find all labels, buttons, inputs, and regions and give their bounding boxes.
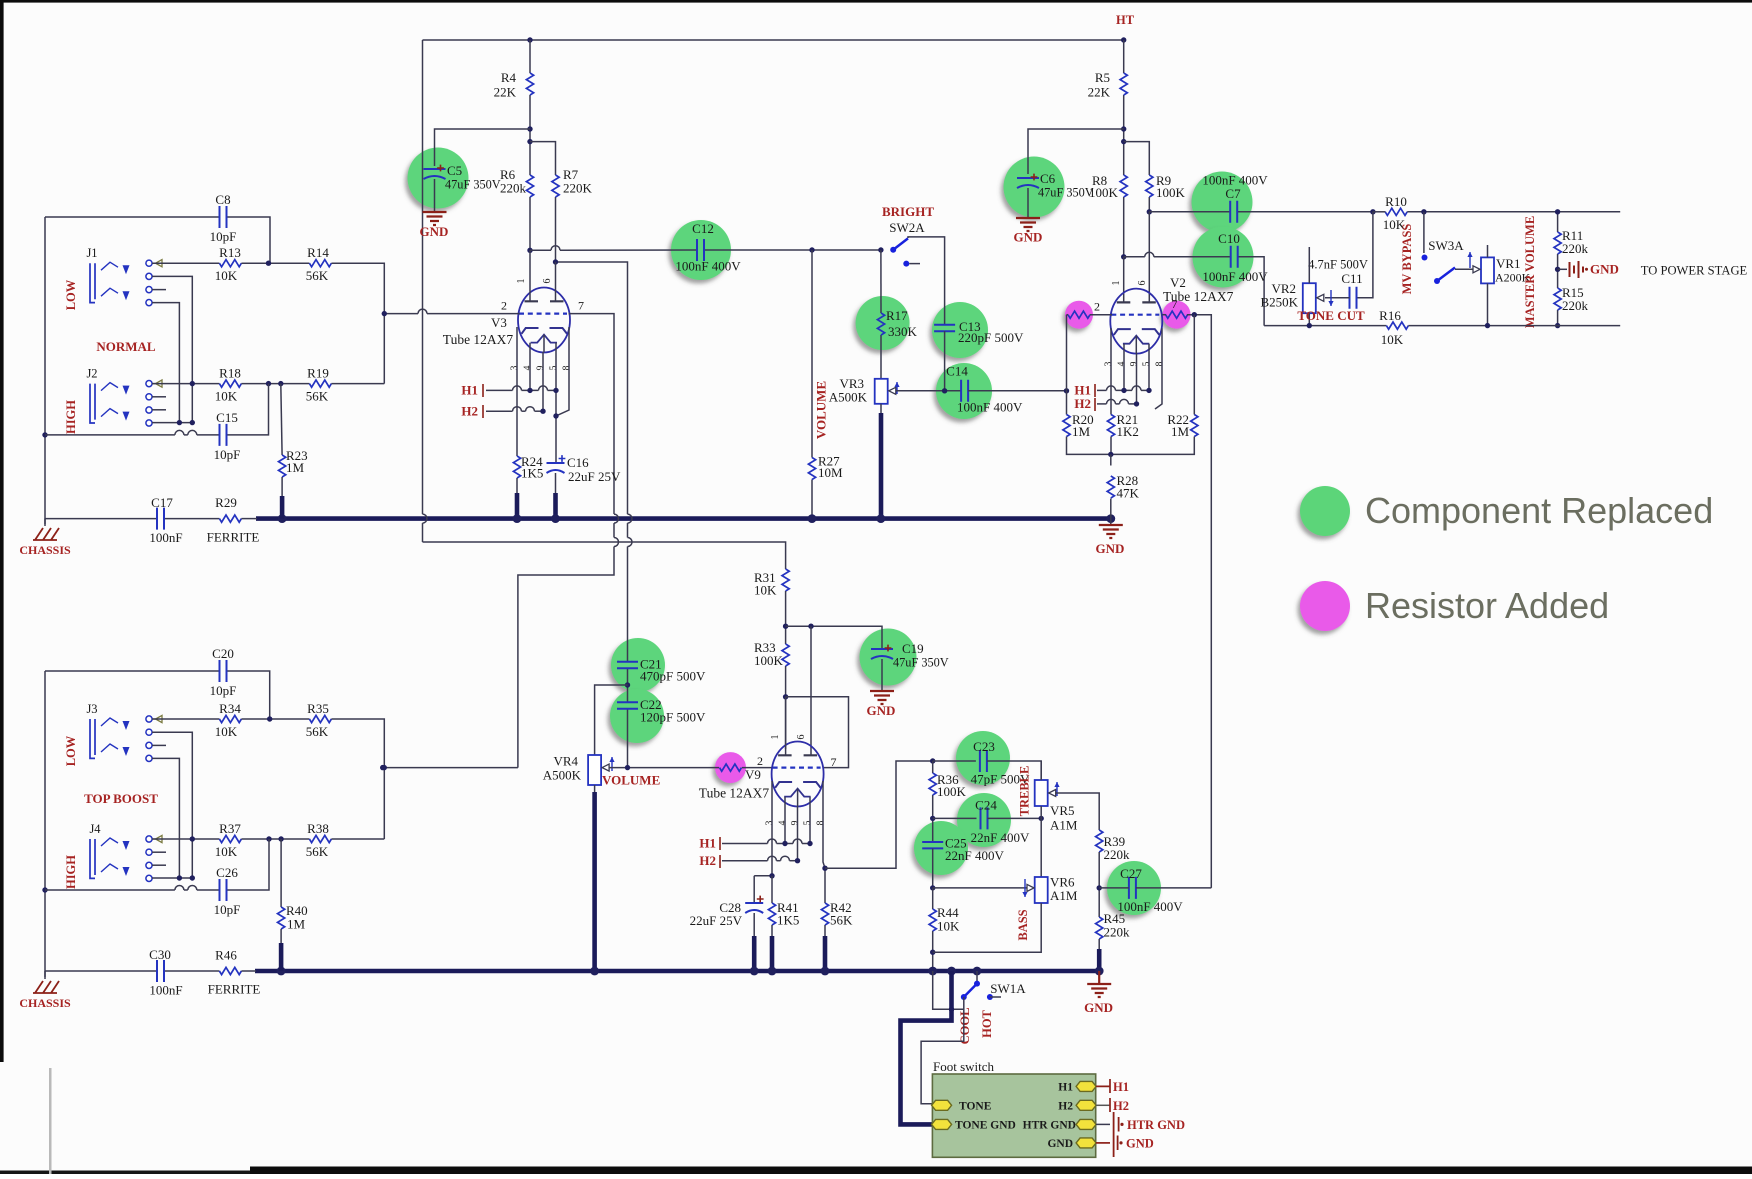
svg-text:3: 3 bbox=[765, 820, 775, 825]
resistor R18 10K bbox=[219, 380, 241, 387]
svg-text:R16: R16 bbox=[1379, 308, 1401, 323]
resistor R31 10K bbox=[782, 569, 789, 591]
svg-text:220pF 500V: 220pF 500V bbox=[958, 330, 1024, 345]
wire R23 branch bbox=[281, 384, 282, 455]
svg-text:R35: R35 bbox=[307, 701, 329, 716]
wire SW3A to VR1 wiper bbox=[1455, 268, 1473, 270]
junction C27 / R39 / R45 bbox=[1097, 885, 1102, 890]
svg-text:HTR GND: HTR GND bbox=[1023, 1119, 1076, 1131]
wire V2 pin6 lead bbox=[1148, 212, 1150, 303]
wire R29 to bus start bbox=[241, 518, 257, 520]
svg-text:6: 6 bbox=[542, 279, 553, 284]
svg-text:10pF: 10pF bbox=[214, 447, 241, 462]
resistor R8 100K bbox=[1120, 175, 1127, 197]
svg-text:120pF 500V: 120pF 500V bbox=[640, 710, 706, 725]
wire C11 branch bbox=[1357, 212, 1373, 298]
svg-text:10K: 10K bbox=[754, 583, 777, 598]
junction mix node to V3 grid bbox=[382, 311, 387, 316]
svg-text:SW2A: SW2A bbox=[889, 220, 925, 235]
wire R41 to bus bbox=[771, 925, 773, 937]
svg-text:1M: 1M bbox=[1171, 424, 1190, 439]
junction R22 top bbox=[1192, 312, 1197, 317]
svg-text:10K: 10K bbox=[215, 389, 238, 404]
wire jack link ring J1 to R18 node bbox=[152, 276, 192, 422]
resistor R10 10K bbox=[1385, 208, 1407, 215]
wire R18 to R19 bbox=[241, 383, 309, 385]
svg-text:1K5: 1K5 bbox=[777, 913, 799, 928]
junction R7 tap bbox=[527, 139, 532, 144]
wire cathode common row bbox=[1067, 437, 1195, 455]
wire J1 tip to R13 bbox=[152, 262, 219, 264]
wire R22 top lead bbox=[1193, 315, 1195, 415]
wire VR3 bottom to bus bbox=[880, 404, 882, 414]
svg-text:C23: C23 bbox=[973, 739, 995, 754]
ground bus upper bbox=[256, 516, 1111, 521]
wire J3 contact stub bbox=[152, 744, 166, 746]
wire C27 left lead bbox=[1099, 887, 1129, 889]
svg-text:R34: R34 bbox=[219, 701, 241, 716]
wire R10 leads bbox=[1373, 211, 1386, 213]
wire VR2 wiper to C11 bbox=[1325, 297, 1350, 299]
svg-text:5: 5 bbox=[803, 820, 813, 825]
heater H2 wire V9 bbox=[722, 860, 768, 862]
svg-text:1M: 1M bbox=[1072, 424, 1091, 439]
junction V9 pin6 tap bbox=[808, 624, 813, 629]
svg-text:H1: H1 bbox=[1113, 1080, 1129, 1094]
chassis ground lower bbox=[44, 971, 46, 979]
svg-text:TONE: TONE bbox=[959, 1100, 992, 1112]
svg-text:C30: C30 bbox=[149, 947, 171, 962]
highlight circle R17 replaced bbox=[856, 296, 910, 350]
potentiometer VR4 A500K volume bbox=[588, 755, 601, 785]
resistor R41 1K5 bbox=[768, 903, 775, 925]
svg-text:A1M: A1M bbox=[1050, 888, 1078, 903]
resistor added at V2 pin 7 bbox=[1166, 311, 1188, 318]
svg-text:22uF 25V: 22uF 25V bbox=[568, 469, 621, 484]
ground below C6 bbox=[1016, 218, 1040, 231]
pad TONE GND bbox=[932, 1119, 952, 1129]
resistor R45 220k bbox=[1096, 917, 1103, 939]
svg-text:22K: 22K bbox=[494, 85, 517, 100]
resistor R17 330K bbox=[877, 313, 884, 335]
svg-text:100nF: 100nF bbox=[149, 983, 182, 998]
wire J3 tip to R34 bbox=[152, 718, 219, 720]
wire HT rail bbox=[423, 39, 1124, 41]
wire to R9 top bbox=[1124, 142, 1150, 175]
junction C28 / R41 / V9 pin3 bbox=[769, 873, 774, 878]
wire C23 to VR5 top bbox=[987, 761, 1041, 779]
foot switch block bbox=[932, 1074, 1095, 1157]
highlight circle C10 replaced bbox=[1193, 227, 1254, 288]
svg-text:FERRITE: FERRITE bbox=[207, 530, 260, 545]
svg-text:1K5: 1K5 bbox=[521, 466, 543, 481]
resistor R34 10K bbox=[219, 715, 241, 722]
svg-text:SW3A: SW3A bbox=[1428, 238, 1464, 253]
svg-text:R38: R38 bbox=[307, 821, 329, 836]
junction R9 bottom / C7 bbox=[1147, 209, 1152, 214]
svg-text:TONE GND: TONE GND bbox=[955, 1119, 1016, 1131]
capacitor C24 22nF 400V bbox=[981, 807, 988, 829]
highlight circle C14 replaced bbox=[936, 363, 992, 419]
wire to C5 bbox=[435, 129, 531, 166]
svg-text:HIGH: HIGH bbox=[64, 400, 78, 434]
capacitor C21 470pF 500V bbox=[617, 662, 638, 668]
wire to R7 top bbox=[530, 142, 556, 175]
wire J4 sleeve row bbox=[152, 877, 192, 879]
svg-text:1M: 1M bbox=[286, 460, 305, 475]
svg-text:H2: H2 bbox=[1074, 396, 1091, 411]
svg-text:H2: H2 bbox=[461, 404, 478, 419]
tube V2 12AX7 envelope bbox=[1110, 289, 1162, 354]
wire tone input to C23 bbox=[933, 760, 976, 762]
svg-text:100nF 400V: 100nF 400V bbox=[1117, 899, 1183, 914]
wire to VR4 top bbox=[595, 685, 628, 755]
pad TONE bbox=[932, 1100, 952, 1110]
svg-text:H2: H2 bbox=[699, 853, 716, 868]
svg-text:CHASSIS: CHASSIS bbox=[19, 996, 71, 1010]
resistor R7 220K bbox=[552, 175, 559, 197]
resistor R29 ferrite bead bbox=[219, 515, 241, 522]
wire C14 to V2 grid bbox=[968, 390, 1066, 392]
capacitor C10 100nF 400V bbox=[1231, 246, 1238, 268]
ground bus lower bbox=[255, 969, 1099, 974]
capacitor C30 100nF bbox=[157, 960, 164, 982]
wire V3 pin 6 row bbox=[556, 262, 628, 514]
highlight circle C19 replaced bbox=[860, 629, 917, 686]
resistor R28 47K bbox=[1107, 476, 1114, 498]
potentiometer VR6 A1M bass bbox=[1035, 877, 1048, 903]
wire tone gnd thick to foot switch bbox=[901, 971, 952, 1124]
svg-text:Tube 12AX7: Tube 12AX7 bbox=[699, 786, 770, 801]
svg-text:GND: GND bbox=[1047, 1138, 1073, 1150]
svg-text:7: 7 bbox=[831, 755, 837, 769]
junction C8 / R13 / R14 bbox=[266, 261, 271, 266]
capacitor C25 22nF 400V bbox=[922, 842, 943, 848]
svg-text:C15: C15 bbox=[216, 410, 238, 425]
svg-text:Component Replaced: Component Replaced bbox=[1365, 490, 1713, 531]
wire C10 row bbox=[1124, 256, 1145, 258]
svg-text:R37: R37 bbox=[219, 821, 241, 836]
svg-text:470pF 500V: 470pF 500V bbox=[640, 669, 706, 684]
junction C21 C22 / VR4 top bbox=[625, 682, 630, 687]
wire HTR GND external bbox=[1096, 1123, 1110, 1125]
svg-text:C14: C14 bbox=[946, 364, 968, 379]
svg-text:H1: H1 bbox=[461, 383, 478, 398]
wire left chassis vertical lower bbox=[44, 671, 46, 977]
svg-text:Resistor Added: Resistor Added bbox=[1365, 585, 1609, 626]
wire to C6 bbox=[1028, 129, 1124, 174]
jack J3 contacts bbox=[146, 715, 162, 761]
wire R35 to mix node lower bbox=[331, 719, 384, 839]
wire R42 to bus bbox=[824, 925, 826, 937]
svg-text:SW1A: SW1A bbox=[990, 981, 1026, 996]
wire R33 bottom to plate route bbox=[785, 666, 787, 749]
input jack J1 body bbox=[90, 262, 118, 302]
wire R44 branch bbox=[932, 888, 934, 909]
junction R4 bottom / C5 bbox=[527, 126, 532, 131]
svg-text:C6: C6 bbox=[1040, 171, 1056, 186]
svg-text:100nF 400V: 100nF 400V bbox=[1202, 269, 1268, 284]
wire VR5 wiper to R39 bbox=[1055, 793, 1099, 830]
capacitor C26 10pF bbox=[220, 879, 227, 901]
wire J4 tip to R37 bbox=[152, 838, 219, 840]
wire R42 branch bbox=[824, 868, 826, 903]
wire bottom tone row bbox=[1264, 325, 1386, 327]
potentiometer VR1 A200K master volume bbox=[1481, 257, 1494, 283]
jack J4 contacts bbox=[146, 835, 162, 881]
svg-text:C24: C24 bbox=[975, 798, 997, 813]
svg-text:R13: R13 bbox=[219, 245, 241, 260]
wire plate route to pin7 bbox=[786, 697, 849, 768]
svg-text:C16: C16 bbox=[567, 455, 589, 470]
highlight circle C5 replaced bbox=[408, 148, 469, 209]
wire C19 to ground bbox=[881, 659, 883, 691]
highlight circle C7 replaced bbox=[1192, 172, 1253, 233]
resistor R46 ferrite bead bbox=[219, 967, 241, 974]
junction C22 bottom / wiper row bbox=[625, 765, 630, 770]
svg-text:V2: V2 bbox=[1170, 275, 1186, 290]
highlight circle grid resistor added V2 pin2 bbox=[1065, 301, 1093, 329]
svg-text:R18: R18 bbox=[219, 366, 241, 381]
junction R42 top / signal out bbox=[822, 866, 827, 871]
resistor added at V9 pin 2 bbox=[720, 764, 742, 771]
svg-text:330K: 330K bbox=[888, 324, 918, 339]
svg-text:220K: 220K bbox=[563, 181, 593, 196]
svg-text:GND: GND bbox=[867, 703, 896, 718]
wire VR1 bottom bbox=[1487, 283, 1489, 325]
svg-text:FERRITE: FERRITE bbox=[208, 982, 261, 997]
wire link to x518 vertical bbox=[383, 767, 518, 769]
junction C20 / R34 / R35 bbox=[267, 716, 272, 721]
highlight circle C21 replaced bbox=[611, 638, 665, 692]
svg-text:R46: R46 bbox=[215, 948, 237, 963]
svg-text:HTR GND: HTR GND bbox=[1127, 1118, 1185, 1132]
junction HT / R5 bbox=[1121, 37, 1126, 42]
svg-text:GND: GND bbox=[1084, 1000, 1113, 1015]
junction R44 bottom / VR6 bottom bbox=[930, 950, 935, 955]
ground at lower bus end bbox=[1098, 971, 1100, 984]
svg-text:10K: 10K bbox=[215, 268, 238, 283]
svg-text:22uF 25V: 22uF 25V bbox=[690, 913, 743, 928]
svg-text:LOW: LOW bbox=[64, 279, 78, 310]
highlight circle C6 replaced bbox=[1004, 157, 1065, 218]
capacitor C20 10pF bbox=[220, 660, 227, 682]
svg-text:C27: C27 bbox=[1120, 866, 1142, 881]
svg-text:BASS: BASS bbox=[1016, 909, 1030, 940]
junction jack rail / R37 row bbox=[190, 836, 195, 841]
resistor R15 220k bbox=[1554, 288, 1561, 310]
capacitor C28 22uF 25V bbox=[745, 902, 763, 904]
junction R23 top bbox=[278, 381, 283, 386]
wire V3 pin7 bbox=[569, 314, 615, 514]
svg-text:V3: V3 bbox=[491, 315, 507, 330]
wire VR2 top stub bbox=[1308, 247, 1310, 283]
junction R10 / C11 bbox=[1370, 209, 1375, 214]
svg-text:100K: 100K bbox=[1156, 185, 1186, 200]
svg-text:GND: GND bbox=[1096, 541, 1125, 556]
svg-text:A1M: A1M bbox=[1050, 818, 1078, 833]
wire C5 to ground bbox=[434, 179, 436, 212]
junction R27 tap bbox=[809, 247, 814, 252]
junction SW3A top bbox=[1421, 209, 1426, 214]
wire stage link row y542 bbox=[423, 542, 786, 569]
junction VR5 bottom / VR6 top bbox=[1039, 816, 1044, 821]
svg-text:100K: 100K bbox=[754, 653, 784, 668]
resistor R23 1M bbox=[279, 455, 286, 477]
resistor R40 1M bbox=[278, 907, 285, 929]
wire R36 branch bbox=[932, 761, 934, 773]
resistor R5 22K bbox=[1120, 73, 1127, 95]
svg-text:8: 8 bbox=[816, 820, 826, 825]
svg-text:7: 7 bbox=[578, 299, 584, 313]
svg-text:VR4: VR4 bbox=[553, 754, 578, 769]
wire jack link sleeve J1 to J2 bbox=[152, 303, 179, 423]
svg-text:10pF: 10pF bbox=[210, 229, 237, 244]
pad H2 bbox=[1076, 1100, 1096, 1110]
chassis ground upper bbox=[44, 519, 46, 526]
wire chassis row upper bbox=[45, 518, 157, 520]
highlight circle C22 replaced bbox=[610, 689, 664, 743]
wire VR6 wiper row bbox=[933, 887, 1034, 889]
input jack J2 body bbox=[90, 383, 118, 423]
svg-text:2: 2 bbox=[757, 754, 763, 768]
wire C21 C22 chain bbox=[627, 261, 629, 263]
wire V3 pin6 lead bbox=[555, 262, 557, 302]
svg-text:VR5: VR5 bbox=[1050, 803, 1075, 818]
wire R11 R15 divider bbox=[1557, 212, 1559, 232]
junction jack ring rail / R18 row bbox=[190, 381, 195, 386]
wire R20 top lead bbox=[1066, 391, 1068, 415]
capacitor C22 120pF 500V bbox=[617, 702, 638, 708]
svg-text:A500K: A500K bbox=[829, 390, 868, 405]
highlight circle C24 replaced bbox=[957, 793, 1011, 847]
svg-text:56K: 56K bbox=[306, 389, 329, 404]
input jack J4 body bbox=[90, 838, 118, 878]
wire R38 to mix node lower bbox=[331, 838, 384, 840]
svg-text:100nF: 100nF bbox=[149, 530, 182, 545]
wire J4 contact stub bbox=[152, 864, 166, 866]
capacitor C13 220pF 500V bbox=[934, 325, 955, 331]
svg-text:47uF 350V: 47uF 350V bbox=[1038, 186, 1094, 200]
ground stub master volume bbox=[1558, 268, 1567, 270]
svg-text:9: 9 bbox=[1130, 361, 1140, 366]
wire R19 to mix node bbox=[331, 383, 384, 385]
svg-text:5: 5 bbox=[1142, 361, 1152, 366]
svg-text:LOW: LOW bbox=[64, 735, 78, 766]
wire VR5 to VR6 bbox=[1040, 806, 1042, 880]
resistor R24 1K5 bbox=[513, 456, 520, 478]
junction C15 / R18 / R19 bbox=[266, 381, 271, 386]
input jack J3 body bbox=[90, 718, 118, 758]
svg-text:NORMAL: NORMAL bbox=[96, 339, 156, 354]
junction divider mid / ground bbox=[1555, 267, 1560, 272]
wire J2 tip to R18 bbox=[152, 383, 219, 385]
junction R5 bottom / C6 bbox=[1121, 126, 1126, 131]
svg-text:4.7nF 500V: 4.7nF 500V bbox=[1308, 258, 1368, 272]
svg-text:10K: 10K bbox=[215, 844, 238, 859]
svg-text:R5: R5 bbox=[1095, 70, 1110, 85]
svg-text:R14: R14 bbox=[307, 245, 329, 260]
svg-text:R19: R19 bbox=[307, 366, 329, 381]
svg-text:Tube 12AX7: Tube 12AX7 bbox=[443, 332, 514, 347]
resistor R6 220k bbox=[526, 175, 533, 197]
resistor R36 100K bbox=[929, 773, 936, 795]
wire V2 pin7 to tone stack drop bbox=[1162, 314, 1166, 316]
resistor R33 100K bbox=[782, 644, 789, 666]
svg-text:C12: C12 bbox=[692, 221, 714, 236]
wire J2 ring stub bbox=[152, 396, 166, 398]
ground GND upper bus bbox=[1099, 525, 1123, 538]
wire H2 external bbox=[1096, 1104, 1110, 1106]
wire C19 branch bbox=[786, 626, 882, 648]
wire GND external bbox=[1096, 1142, 1110, 1144]
resistor R19 56K bbox=[309, 380, 331, 387]
pad GND bbox=[1076, 1138, 1096, 1148]
wire left chassis vertical upper bbox=[44, 217, 46, 524]
resistor R35 56K bbox=[309, 715, 331, 722]
svg-text:V9: V9 bbox=[745, 767, 761, 782]
wire V9 out to tone stack bbox=[825, 761, 933, 868]
highlight circle grid resistor added V9 bbox=[715, 752, 746, 783]
svg-text:56K: 56K bbox=[306, 724, 329, 739]
svg-text:22nF 400V: 22nF 400V bbox=[945, 848, 1004, 863]
resistor R20 1M bbox=[1063, 415, 1070, 437]
capacitor C19 47uF 350V bbox=[871, 648, 893, 650]
wire cool branch jog bbox=[933, 971, 964, 1009]
svg-text:1K2: 1K2 bbox=[1117, 424, 1139, 439]
wire J2 sleeve row bbox=[152, 422, 192, 424]
resistor R21 1K2 bbox=[1107, 415, 1114, 437]
capacitor C11 4.7nF 500V bbox=[1350, 287, 1357, 309]
junction R7 bottom / V3 pin6 bbox=[553, 259, 558, 264]
heater H1 wire V9 bbox=[722, 843, 768, 845]
svg-text:22nF 400V: 22nF 400V bbox=[971, 830, 1030, 845]
svg-text:C8: C8 bbox=[215, 192, 230, 207]
capacitor C15 10pF bbox=[220, 424, 227, 446]
ground GND lower bus bbox=[1087, 984, 1111, 997]
svg-text:TONE CUT: TONE CUT bbox=[1297, 308, 1365, 323]
svg-text:BRIGHT: BRIGHT bbox=[882, 204, 934, 219]
svg-text:C26: C26 bbox=[216, 865, 238, 880]
wire V3 grid pin2 feed bbox=[384, 313, 418, 315]
junction R9 tap bbox=[1121, 139, 1126, 144]
junction R40 top bbox=[278, 836, 283, 841]
capacitor C16 22uF 25V bbox=[547, 462, 565, 464]
potentiometer VR2 B250K tone cut bbox=[1303, 283, 1316, 313]
wire R14 to mix node bbox=[331, 263, 384, 383]
resistor R16 10K bbox=[1386, 322, 1408, 329]
svg-text:MV BYPASS: MV BYPASS bbox=[1400, 224, 1414, 295]
svg-text:H2: H2 bbox=[1058, 1100, 1073, 1112]
wire VR4 bottom to bus bbox=[594, 785, 596, 793]
wire R34 to R35 bbox=[241, 718, 309, 720]
svg-text:10K: 10K bbox=[1381, 332, 1404, 347]
resistor R9 100K bbox=[1146, 175, 1153, 197]
svg-text:C10: C10 bbox=[1218, 231, 1240, 246]
wire C28 branch bbox=[754, 875, 772, 877]
highlight circle grid resistor added V2 pin7 bbox=[1163, 301, 1191, 329]
svg-text:9: 9 bbox=[791, 820, 801, 825]
svg-text:TOP BOOST: TOP BOOST bbox=[84, 791, 158, 806]
highlight circle C25 replaced bbox=[914, 821, 968, 875]
svg-text:VOLUME: VOLUME bbox=[813, 381, 828, 439]
capacitor C23 47pF 500V bbox=[980, 750, 987, 772]
svg-text:1M: 1M bbox=[287, 917, 306, 932]
wire R5 branch bbox=[1123, 40, 1125, 73]
wire R37 to R38 bbox=[241, 838, 309, 840]
junction C25 / VR6 wiper row bbox=[930, 885, 935, 890]
resistor R44 10K bbox=[929, 909, 936, 931]
